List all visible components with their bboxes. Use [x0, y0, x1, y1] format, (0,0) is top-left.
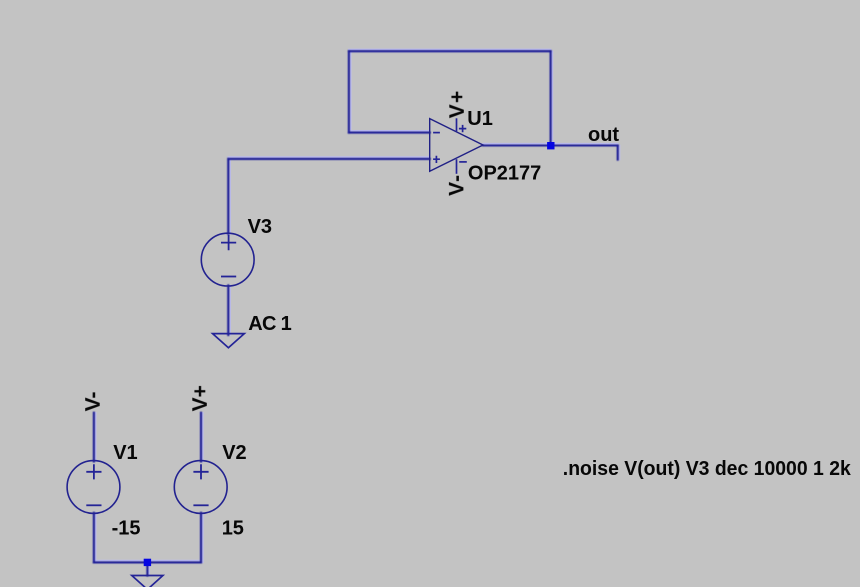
wire inverting input: [349, 132, 430, 134]
junction at op-amp output: [547, 142, 554, 149]
wire feedback left vertical: [348, 51, 350, 132]
inverting input mark: [433, 132, 440, 134]
svg-text:out: out: [588, 124, 619, 146]
wire out stub: [617, 146, 619, 160]
voltage source V2: [174, 385, 246, 540]
wire V3 top: [227, 159, 229, 234]
svg-text:V-: V-: [445, 174, 468, 196]
wire halo (resampling artifact): [94, 49, 620, 575]
svg-text:V-: V-: [82, 392, 105, 412]
svg-text:V+: V+: [189, 385, 212, 411]
voltage source V3: [201, 216, 291, 335]
svg-text:V+: V+: [446, 90, 469, 119]
pin V+ plus mark: [459, 125, 466, 132]
wire op-amp output: [483, 144, 618, 146]
ground at bottom rail: [132, 576, 163, 587]
svg-text:-15: -15: [112, 518, 141, 540]
pin V- minus mark: [459, 161, 467, 163]
pin V+ stub: [456, 118, 458, 131]
wire V2 top: [200, 413, 202, 462]
svg-text:.noise V(out) V3 dec 10000 1 2: .noise V(out) V3 dec 10000 1 2k: [563, 458, 852, 480]
svg-text:U1: U1: [467, 108, 493, 130]
wire V1 top: [93, 413, 95, 462]
wire bottom rail: [94, 561, 201, 563]
svg-text:V2: V2: [222, 442, 246, 464]
wire V1 bottom: [93, 513, 95, 563]
wire V2 bottom: [200, 513, 202, 563]
non-inverting input mark: [433, 156, 440, 163]
op-amp U1: [430, 90, 542, 196]
svg-text:V1: V1: [113, 442, 137, 464]
svg-text:OP2177: OP2177: [468, 163, 541, 185]
wire non-inverting input: [228, 158, 429, 160]
wire feedback right vertical: [550, 51, 552, 145]
svg-text:V3: V3: [248, 216, 272, 238]
junction at bottom rail: [144, 559, 151, 566]
svg-text:15: 15: [222, 518, 244, 540]
wire V3 bottom: [227, 285, 229, 335]
pin V- stub: [456, 159, 458, 174]
svg-text:AC 1: AC 1: [248, 313, 291, 335]
voltage source V1: [67, 392, 140, 540]
wire feedback top: [349, 50, 551, 52]
wire ground stub: [146, 562, 148, 575]
ground under V3: [213, 334, 245, 348]
